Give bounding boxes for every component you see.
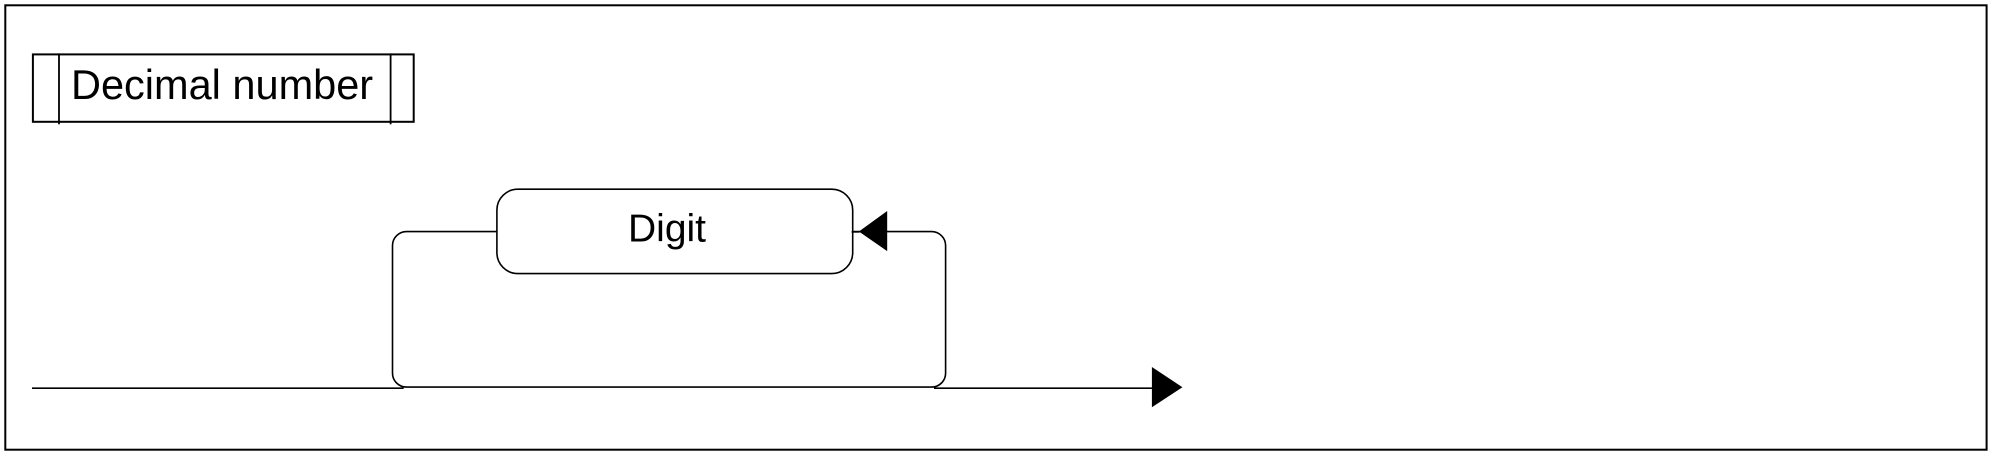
main entry line — [32, 387, 404, 389]
svg-text:Decimal number: Decimal number — [71, 61, 373, 108]
nonterminal box "Digit" — [497, 189, 853, 273]
loop arrow connector stub — [852, 231, 860, 233]
exit arrowhead — [1152, 367, 1183, 407]
production title box — [33, 54, 414, 121]
loop arrowhead (pointing left into Digit box) — [859, 211, 887, 251]
main exit line — [934, 387, 1152, 389]
title box left divider — [58, 53, 60, 124]
loop wire (repeat back-edge rounded rectangle) — [393, 232, 946, 388]
svg-text:Digit: Digit — [628, 208, 706, 251]
title box right divider — [390, 53, 392, 124]
